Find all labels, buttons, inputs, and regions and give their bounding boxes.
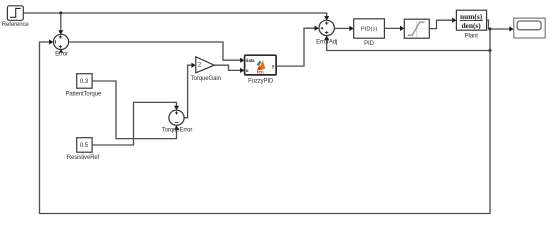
wire W9: outer feedback loop to Error left input	[40, 29, 491, 214]
MATLAB function block FuzzyPID	[245, 55, 277, 84]
wire W7: Saturation output to Plant input	[429, 18, 456, 29]
svg-text:TorqueGain: TorqueGain	[191, 76, 221, 82]
constant ResistiveRef value 0.5	[67, 138, 100, 161]
transfer function Plant	[456, 10, 486, 40]
wire W3: Error output to FuzzyPID data input	[69, 42, 245, 63]
saturation block	[404, 19, 429, 38]
svg-text:den(s): den(s)	[461, 21, 481, 30]
node C: junction on feedback rail	[489, 49, 492, 52]
svg-text:fcn: fcn	[257, 70, 264, 75]
svg-text:0.3: 0.3	[80, 79, 89, 85]
svg-text:0.5: 0.5	[80, 143, 89, 149]
step source Reference	[2, 6, 30, 28]
wire W2: junction down to Error sum top input	[58, 13, 63, 35]
sum block ErrorAdj	[316, 20, 337, 45]
svg-text:PatientTorque: PatientTorque	[66, 92, 102, 98]
sum block Error	[53, 34, 68, 57]
gain TorqueGain value 2	[191, 57, 221, 82]
svg-text:Plant: Plant	[465, 34, 479, 40]
svg-text:num(s): num(s)	[460, 12, 483, 21]
svg-text:data: data	[246, 58, 255, 63]
svg-text:ResistiveRef: ResistiveRef	[67, 155, 100, 161]
wire W11: ResistiveRef output to TorqueError top input	[92, 102, 179, 145]
wire W10: PatientTorque output to TorqueError bottom input	[92, 81, 179, 139]
svg-text:u: u	[246, 68, 249, 73]
svg-text:PID: PID	[364, 41, 374, 47]
svg-text:FuzzyPID: FuzzyPID	[248, 78, 274, 84]
sum block TorqueError	[162, 110, 193, 134]
scope block	[514, 18, 545, 38]
node B: junction at Plant output branch	[489, 28, 492, 31]
svg-text:TorqueError: TorqueError	[162, 128, 193, 134]
wire W13: TorqueGain output to FuzzyPID u input	[214, 65, 244, 73]
svg-text:PID(s): PID(s)	[361, 26, 377, 32]
wire W8: Plant output to Scope input	[487, 20, 514, 31]
wire W5: ErrorAdj output to PID input	[334, 26, 353, 31]
constant PatientTorque value 0.3	[66, 74, 102, 98]
svg-text:Reference: Reference	[2, 22, 30, 28]
wire W12: TorqueError output to TorqueGain input	[184, 63, 196, 118]
wire W6: PID output to Saturation input	[384, 26, 404, 31]
wire W14: FuzzyPID y output to ErrorAdj left input	[276, 26, 319, 67]
node A: junction on Reference line above Error	[59, 12, 62, 15]
PID controller block	[354, 19, 385, 47]
wire W1: Reference output to ErrorAdj top input	[23, 13, 329, 20]
svg-text:ErrorAdj: ErrorAdj	[316, 39, 337, 45]
svg-text:Error: Error	[55, 52, 68, 58]
wire W4: feedback branch to ErrorAdj bottom input	[324, 36, 490, 51]
